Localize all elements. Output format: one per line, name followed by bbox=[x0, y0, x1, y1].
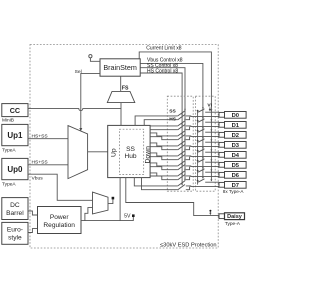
switch row D6 (SS/HS/VI switches) bbox=[150, 167, 219, 180]
connector D3 (Type-A downstream) bbox=[219, 142, 246, 150]
label VI with arrow bbox=[207, 103, 212, 112]
svg-text:D2: D2 bbox=[232, 133, 239, 139]
wire Up0 HS+SS to mux bbox=[28, 164, 68, 166]
mux power selector bbox=[93, 192, 109, 214]
wire 5V feed to SS Hub bbox=[119, 178, 121, 221]
wire Sel from BrainStem to data mux (arrow) bbox=[75, 69, 100, 131]
svg-text:Barrel: Barrel bbox=[6, 210, 24, 217]
outer dashed ESD boundary box bbox=[30, 45, 218, 249]
wire Daisy from SS Hub bbox=[126, 178, 219, 216]
svg-text:8x Type-A: 8x Type-A bbox=[223, 189, 245, 194]
svg-text:SS: SS bbox=[126, 146, 135, 153]
connector D7 (Type-A downstream) bbox=[219, 182, 246, 190]
connector Euro-style bbox=[2, 222, 28, 244]
mux upstream data selector bbox=[68, 126, 88, 179]
svg-text:Up1: Up1 bbox=[7, 131, 23, 140]
dashed box SS/HS switches bbox=[167, 96, 193, 191]
svg-text:Down: Down bbox=[144, 146, 151, 164]
connector D1 (Type-A downstream) bbox=[219, 122, 246, 130]
wire Up0 Vbus to power mux bbox=[28, 174, 93, 200]
svg-text:5V: 5V bbox=[124, 213, 131, 219]
connector D5 (Type-A downstream) bbox=[219, 162, 246, 170]
svg-text:MiniB: MiniB bbox=[2, 118, 14, 124]
svg-text:CC: CC bbox=[10, 106, 20, 115]
connector D0 (Type-A downstream) bbox=[219, 112, 246, 120]
connector CC (Mini-B) bbox=[2, 104, 28, 124]
connector D2 (Type-A downstream) bbox=[219, 132, 246, 140]
switch row D0 (SS/HS/VI switches) bbox=[135, 107, 219, 125]
control dot-arrow on Daisy wire bbox=[209, 210, 211, 215]
svg-text:≤30kV ESD Protection: ≤30kV ESD Protection bbox=[160, 243, 217, 249]
connector D4 (Type-A downstream) bbox=[219, 152, 246, 160]
switch row D5 (SS/HS/VI switches) bbox=[150, 157, 219, 170]
wire mux output to SS Hub Up port bbox=[88, 151, 108, 153]
dashed box VI switches bbox=[195, 96, 215, 191]
terminal circle at BrainStem input bbox=[89, 55, 100, 62]
wire SS Control x8 bbox=[140, 68, 185, 181]
connector D6 (Type-A downstream) bbox=[219, 172, 246, 180]
wire Euro-style to Power Regulation bbox=[28, 229, 38, 233]
wire Current Limit x8 bbox=[139, 52, 211, 181]
svg-text:D6: D6 bbox=[232, 173, 240, 179]
svg-text:TypeA: TypeA bbox=[2, 147, 16, 153]
wire power mux lower input from 5V bbox=[85, 208, 93, 221]
connector Up0 (Type-A upstream) bbox=[2, 158, 28, 187]
connector Up1 (Type-A upstream) bbox=[2, 124, 28, 153]
svg-text:HS+SS: HS+SS bbox=[32, 133, 49, 139]
svg-text:D3: D3 bbox=[232, 143, 240, 149]
svg-text:D4: D4 bbox=[232, 153, 240, 159]
switch row D3 (SS/HS/VI switches) bbox=[150, 137, 219, 150]
trapezoid FS combiner bbox=[107, 91, 135, 102]
wire Up1 HS+SS to mux bbox=[28, 138, 68, 140]
connector DC Barrel bbox=[2, 198, 28, 220]
svg-text:HS Control x8: HS Control x8 bbox=[147, 68, 178, 74]
wire 5V rail with terminal bbox=[81, 213, 135, 220]
power rail VI vertical bbox=[197, 111, 199, 185]
switch row D7 (SS/HS/VI switches) bbox=[134, 177, 219, 190]
svg-text:D5: D5 bbox=[232, 163, 240, 169]
svg-text:Type-A: Type-A bbox=[225, 221, 241, 227]
svg-text:D0: D0 bbox=[232, 113, 239, 119]
svg-text:style: style bbox=[8, 235, 22, 242]
wire DC Barrel to Power Regulation bbox=[28, 211, 38, 215]
svg-text:SS: SS bbox=[169, 109, 176, 115]
wire FS from BrainStem to trapezoid bbox=[120, 76, 122, 91]
svg-text:Hub: Hub bbox=[124, 153, 136, 160]
svg-text:Power: Power bbox=[50, 214, 69, 221]
svg-text:Sel: Sel bbox=[75, 69, 82, 75]
wire HS Control x8 bbox=[140, 73, 182, 184]
svg-text:Vbus: Vbus bbox=[32, 175, 44, 181]
block BrainStem bbox=[100, 59, 140, 76]
svg-text:DC: DC bbox=[10, 202, 20, 209]
svg-text:HS+SS: HS+SS bbox=[32, 159, 49, 165]
svg-text:Up0: Up0 bbox=[7, 165, 23, 174]
connector Daisy (Type-A) bbox=[219, 213, 245, 227]
wire Vbus Control x8 bbox=[140, 63, 203, 178]
switch row D2 (SS/HS/VI switches) bbox=[150, 127, 219, 140]
block Power Regulation bbox=[38, 207, 82, 234]
svg-text:Up: Up bbox=[111, 148, 118, 157]
svg-text:Daisy: Daisy bbox=[227, 214, 243, 220]
block SS Hub bbox=[108, 125, 152, 177]
wire FS node to SS Hub upstream bbox=[120, 103, 122, 126]
svg-text:Current Limit x8: Current Limit x8 bbox=[146, 45, 182, 51]
svg-text:TypeA: TypeA bbox=[2, 181, 16, 187]
switch row D4 (SS/HS/VI switches) bbox=[150, 147, 219, 160]
switch row D1 (SS/HS/VI switches) bbox=[150, 117, 219, 130]
svg-text:D1: D1 bbox=[232, 123, 240, 129]
wire CC to FS node (with hop over Sel line) bbox=[28, 109, 121, 111]
svg-text:Euro-: Euro- bbox=[7, 227, 23, 234]
svg-text:BrainStem: BrainStem bbox=[103, 63, 137, 72]
wire power mux output to VI bbox=[108, 197, 114, 204]
svg-text:Regulation: Regulation bbox=[43, 222, 75, 229]
svg-text:FS: FS bbox=[122, 85, 129, 91]
